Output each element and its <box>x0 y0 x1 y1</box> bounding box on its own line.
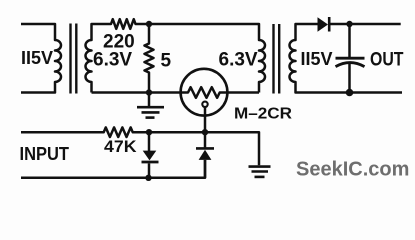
svg-text:5: 5 <box>161 51 172 72</box>
svg-text:6.3V: 6.3V <box>93 50 132 71</box>
svg-text:INPUT: INPUT <box>20 144 70 164</box>
svg-text:M–2CR: M–2CR <box>234 106 292 123</box>
svg-text:SeekIC.com: SeekIC.com <box>296 159 409 181</box>
svg-text:6.3V: 6.3V <box>219 50 258 71</box>
svg-text:II5V: II5V <box>21 48 53 68</box>
svg-text:47K: 47K <box>104 138 137 156</box>
svg-text:OUT: OUT <box>370 50 404 71</box>
svg-text:II5V: II5V <box>301 49 333 69</box>
